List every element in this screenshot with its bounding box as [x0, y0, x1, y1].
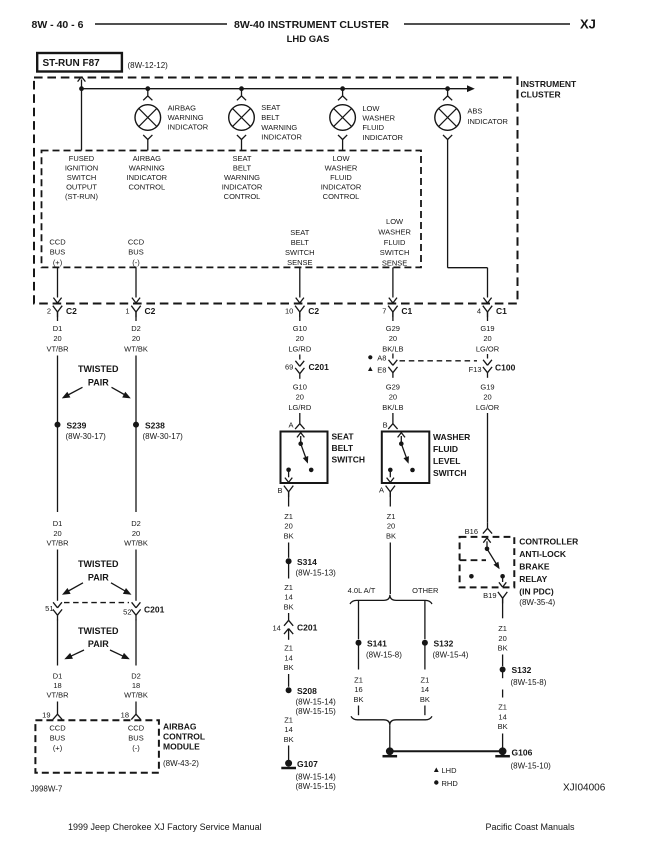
- svg-text:BELT: BELT: [291, 238, 310, 247]
- svg-text:52: 52: [123, 607, 131, 616]
- svg-text:INDICATOR: INDICATOR: [362, 133, 403, 142]
- svg-text:BELT: BELT: [261, 113, 280, 122]
- wire G10 stub above C201: [299, 355, 301, 360]
- wire G19 segment above C100: [487, 354, 489, 359]
- wire stem to ground G106 (left): [389, 725, 391, 748]
- svg-text:1: 1: [125, 307, 129, 316]
- svg-text:Pacific Coast Manuals: Pacific Coast Manuals: [486, 822, 576, 832]
- svg-text:A: A: [288, 420, 293, 429]
- svg-text:ANTI-LOCK: ANTI-LOCK: [519, 549, 567, 559]
- svg-text:18: 18: [132, 681, 140, 690]
- svg-text:20: 20: [483, 334, 491, 343]
- svg-text:(8W-15-14): (8W-15-14): [296, 698, 337, 707]
- wire stub below Z1 14 BK (OTHER branch): [424, 706, 426, 716]
- svg-text:AIRBAG: AIRBAG: [163, 722, 197, 732]
- svg-text:G19: G19: [480, 324, 494, 333]
- svg-text:INDICATOR: INDICATOR: [321, 182, 362, 191]
- svg-text:(-): (-): [132, 743, 140, 752]
- svg-text:LHD GAS: LHD GAS: [287, 34, 330, 45]
- svg-text:WASHER: WASHER: [325, 164, 358, 173]
- lamp SEAT BELT WARNING INDICATOR upper pin fork: [241, 89, 243, 96]
- wire stub below Z1 16 BK: [358, 706, 360, 716]
- svg-text:OTHER: OTHER: [412, 586, 439, 595]
- svg-text:(8W-15-8): (8W-15-8): [366, 651, 402, 660]
- svg-text:69: 69: [285, 363, 293, 372]
- lamp LOW WASHER FLUID INDICATOR bulb symbol: [330, 105, 356, 131]
- svg-text:C201: C201: [144, 604, 165, 614]
- svg-text:WASHER: WASHER: [362, 114, 395, 123]
- washer switch internal exit arrow: [389, 470, 391, 477]
- svg-text:D2: D2: [131, 519, 141, 528]
- header rule left segment: [95, 23, 227, 25]
- wire Z1 segment to S208: [288, 674, 290, 687]
- svg-text:G10: G10: [293, 382, 307, 391]
- washer switch contact (lower left): [388, 468, 393, 473]
- wire stub above Z1 14 BK (right): [502, 690, 504, 698]
- svg-text:PAIR: PAIR: [88, 572, 109, 582]
- lamp LOW WASHER FLUID INDICATOR upper pin fork: [342, 89, 344, 96]
- svg-text:C1: C1: [401, 306, 412, 316]
- svg-text:D2: D2: [131, 324, 141, 333]
- washer switch contact (lower right): [410, 468, 415, 473]
- wire D1 segment to splice S239: [57, 356, 59, 513]
- svg-text:20: 20: [296, 393, 304, 402]
- svg-text:G29: G29: [386, 382, 400, 391]
- wire from fuse F87 into cluster (up arrow): [81, 80, 83, 151]
- svg-text:(ST-RUN): (ST-RUN): [65, 192, 98, 201]
- svg-text:Z1: Z1: [284, 644, 293, 653]
- svg-text:BUS: BUS: [128, 248, 143, 257]
- svg-text:S132: S132: [512, 665, 532, 675]
- lamp ABS INDICATOR upper pin fork: [447, 89, 449, 96]
- svg-text:Z1: Z1: [421, 675, 430, 684]
- svg-text:G29: G29: [386, 324, 400, 333]
- twisted pair arrow left: [67, 387, 83, 395]
- seat belt switch contact (lower left): [286, 468, 291, 473]
- svg-text:WT/BK: WT/BK: [124, 539, 148, 548]
- svg-text:BK: BK: [353, 695, 363, 704]
- svg-text:F13: F13: [469, 365, 482, 374]
- svg-text:A8: A8: [377, 354, 386, 363]
- node: bus junction at x=447.6: [445, 86, 450, 91]
- svg-text:(8W-15-4): (8W-15-4): [433, 651, 469, 660]
- svg-text:CCD: CCD: [49, 237, 66, 246]
- svg-text:BK/LB: BK/LB: [382, 344, 403, 353]
- svg-text:VT/BR: VT/BR: [46, 539, 69, 548]
- svg-text:20: 20: [389, 334, 397, 343]
- svg-text:G19: G19: [480, 382, 494, 391]
- svg-text:ST-RUN F87: ST-RUN F87: [43, 58, 101, 69]
- svg-text:CCD: CCD: [128, 237, 145, 246]
- svg-text:BK: BK: [498, 722, 508, 731]
- splice S208: [286, 687, 292, 693]
- svg-text:TWISTED: TWISTED: [78, 364, 119, 374]
- twisted pair arrow left (lower): [70, 650, 85, 657]
- svg-text:WASHER: WASHER: [378, 228, 411, 237]
- svg-text:8W - 40 - 6: 8W - 40 - 6: [32, 19, 84, 31]
- relay contact (lower left): [469, 574, 474, 579]
- lamp AIRBAG WARNING INDICATOR bulb symbol: [135, 105, 161, 131]
- svg-text:19: 19: [42, 710, 50, 719]
- svg-text:SEAT: SEAT: [290, 228, 309, 237]
- svg-text:16: 16: [354, 685, 362, 694]
- svg-text:(8W-15-10): (8W-15-10): [511, 761, 552, 770]
- svg-text:20: 20: [483, 393, 491, 402]
- svg-text:RELAY: RELAY: [519, 574, 547, 584]
- svg-text:(+): (+): [53, 743, 63, 752]
- wire Z1 from seat belt switch: [288, 492, 290, 507]
- svg-text:RHD: RHD: [442, 779, 459, 788]
- svg-text:(8W-15-15): (8W-15-15): [296, 707, 337, 716]
- svg-text:SWITCH: SWITCH: [380, 248, 410, 257]
- seat belt switch blade: [301, 444, 308, 462]
- svg-text:(8W-43-2): (8W-43-2): [163, 759, 199, 768]
- connector C201 dashed tie line: [64, 602, 129, 604]
- svg-text:SWITCH: SWITCH: [285, 248, 315, 257]
- wire Z1 segment to S314: [288, 543, 290, 558]
- wire Z1 from relay: [502, 598, 504, 618]
- svg-text:J998W-7: J998W-7: [31, 785, 63, 794]
- svg-text:ABS: ABS: [467, 107, 482, 116]
- relay internal entry arrow: [486, 541, 488, 549]
- wire Z1 stub above C201 (center): [288, 613, 290, 620]
- wire G29 to washer switch pin B: [392, 413, 394, 419]
- svg-text:51: 51: [45, 604, 53, 613]
- bus wire end arrow: [467, 85, 475, 92]
- lamp LOW WASHER FLUID INDICATOR lower pin fork: [338, 135, 343, 140]
- wire: washer sense wire to C1 pin 7: [392, 267, 394, 297]
- svg-text:XJI04006: XJI04006: [563, 782, 606, 793]
- svg-text:INDICATOR: INDICATOR: [467, 117, 508, 126]
- svg-text:C2: C2: [145, 306, 156, 316]
- airbag control module dashed box: [35, 720, 158, 772]
- svg-text:LG/RD: LG/RD: [288, 344, 312, 353]
- washer switch internal entry arrow: [400, 436, 402, 444]
- svg-text:SEAT: SEAT: [232, 154, 251, 163]
- svg-text:BK: BK: [420, 695, 430, 704]
- svg-text:Z1: Z1: [498, 624, 507, 633]
- svg-text:CLUSTER: CLUSTER: [521, 89, 561, 99]
- node: bus junction at x=147.8: [145, 86, 150, 91]
- splice S239: [55, 422, 61, 428]
- svg-text:20: 20: [53, 334, 61, 343]
- svg-text:WT/BK: WT/BK: [124, 344, 148, 353]
- svg-text:CONTROLLER: CONTROLLER: [519, 536, 578, 546]
- bus wire across indicators: [82, 88, 468, 90]
- wire Z1 segment to G106: [502, 734, 504, 749]
- svg-text:WARNING: WARNING: [224, 173, 260, 182]
- ground G106 left terminal: [386, 747, 394, 755]
- relay internal dashed divider: [460, 559, 486, 561]
- splice S132 (right): [500, 667, 506, 673]
- svg-text:INDICATOR: INDICATOR: [127, 173, 168, 182]
- washer switch fixed contact (top): [399, 441, 404, 446]
- svg-text:D1: D1: [53, 324, 63, 333]
- wire G10 to seat belt switch pin A: [299, 413, 301, 419]
- svg-text:MODULE: MODULE: [163, 741, 200, 751]
- svg-text:LOW: LOW: [362, 104, 380, 113]
- svg-text:20: 20: [296, 334, 304, 343]
- twisted pair arrow right (lower): [110, 650, 125, 657]
- svg-text:8W-40 INSTRUMENT CLUSTER: 8W-40 INSTRUMENT CLUSTER: [234, 19, 389, 31]
- node: bus junction at ST-RUN feed: [79, 86, 84, 91]
- svg-text:1999 Jeep Cherokee XJ Factory: 1999 Jeep Cherokee XJ Factory Service Ma…: [68, 822, 262, 832]
- svg-text:LHD: LHD: [442, 766, 458, 775]
- wire Z1 segment to S132: [502, 655, 504, 667]
- wire Z1 segment to G107: [288, 746, 290, 761]
- relay fixed contact (top): [485, 547, 490, 552]
- svg-text:WARNING: WARNING: [168, 113, 204, 122]
- relay internal exit arrow: [502, 576, 504, 582]
- svg-text:BELT: BELT: [233, 164, 252, 173]
- svg-text:CCD: CCD: [128, 724, 145, 733]
- svg-text:BUS: BUS: [50, 248, 65, 257]
- svg-text:CONTROL: CONTROL: [163, 732, 205, 742]
- svg-text:TWISTED: TWISTED: [78, 559, 119, 569]
- ground G107: [285, 760, 292, 767]
- svg-text:LG/OR: LG/OR: [476, 403, 500, 412]
- svg-text:(8W-15-8): (8W-15-8): [511, 678, 547, 687]
- connector C2 pin 1: [131, 306, 136, 312]
- svg-text:BELT: BELT: [332, 443, 354, 453]
- lamp ABS INDICATOR bulb symbol: [435, 105, 461, 131]
- svg-text:TWISTED: TWISTED: [78, 626, 119, 636]
- splice S314: [286, 558, 292, 564]
- svg-text:S208: S208: [297, 686, 317, 696]
- split brace (4.0L A/T vs OTHER): [350, 595, 432, 604]
- svg-text:FLUID: FLUID: [433, 444, 458, 454]
- svg-text:D1: D1: [53, 519, 63, 528]
- lamp AIRBAG WARNING INDICATOR lower pin fork: [143, 135, 148, 140]
- svg-text:WASHER: WASHER: [433, 432, 470, 442]
- svg-text:Z1: Z1: [284, 715, 293, 724]
- svg-text:LEVEL: LEVEL: [433, 456, 460, 466]
- svg-text:20: 20: [498, 634, 506, 643]
- svg-text:(8W-15-13): (8W-15-13): [296, 569, 337, 578]
- svg-text:(8W-35-4): (8W-35-4): [519, 598, 555, 607]
- svg-text:LG/RD: LG/RD: [288, 403, 312, 412]
- svg-text:INDICATOR: INDICATOR: [261, 133, 302, 142]
- svg-text:C2: C2: [308, 306, 319, 316]
- ground G106 tie wire: [390, 750, 503, 752]
- svg-text:4.0L A/T: 4.0L A/T: [348, 586, 376, 595]
- wire D1 segment below C201: [57, 620, 59, 666]
- wire G19 long run to relay: [487, 413, 489, 522]
- wire branch OTHER to S132: [424, 601, 426, 639]
- connector C100 dashed tie line: [400, 360, 478, 362]
- node: bus junction at x=241.5: [239, 86, 244, 91]
- svg-text:G106: G106: [512, 747, 533, 757]
- merge brace to ground stem: [351, 716, 432, 725]
- wire D2 segment below C201: [135, 620, 137, 666]
- wire Z1 from washer switch: [389, 492, 391, 507]
- splice S238: [133, 422, 139, 428]
- svg-text:14: 14: [284, 653, 292, 662]
- svg-text:(-): (-): [132, 258, 140, 267]
- svg-text:SEAT: SEAT: [261, 103, 280, 112]
- svg-text:CCD: CCD: [49, 724, 66, 733]
- svg-text:20: 20: [389, 393, 397, 402]
- svg-text:FLUID: FLUID: [384, 238, 406, 247]
- svg-text:20: 20: [132, 334, 140, 343]
- relay blade: [487, 549, 499, 568]
- svg-text:(8W-15-14): (8W-15-14): [296, 772, 337, 781]
- washer switch blade: [401, 444, 408, 462]
- lamp ABS INDICATOR lower pin fork: [443, 135, 448, 140]
- svg-text:14: 14: [284, 593, 292, 602]
- svg-text:B19: B19: [483, 591, 496, 600]
- svg-text:BRAKE: BRAKE: [519, 561, 550, 571]
- svg-text:S141: S141: [367, 638, 387, 648]
- wire: CCD BUS (-) wire to C2 pin 1: [135, 267, 137, 297]
- svg-text:20: 20: [387, 522, 395, 531]
- svg-text:FLUID: FLUID: [362, 123, 384, 132]
- wire below S141: [358, 643, 360, 670]
- connector C1 pin 7: [388, 306, 393, 312]
- wire: seat belt sense wire to C2 pin 10: [299, 267, 301, 297]
- svg-text:FLUID: FLUID: [330, 173, 352, 182]
- svg-text:IGNITION: IGNITION: [65, 164, 98, 173]
- twisted pair arrow right (middle): [111, 583, 126, 592]
- svg-text:E8: E8: [377, 365, 386, 374]
- wire: CCD BUS (+) wire to C2 pin 2: [57, 267, 59, 297]
- svg-text:18: 18: [121, 710, 129, 719]
- svg-text:C100: C100: [495, 362, 516, 372]
- connector C201 pin 14 (in-line, facing up): [284, 620, 289, 626]
- svg-text:OUTPUT: OUTPUT: [66, 182, 97, 191]
- svg-text:(+): (+): [53, 258, 63, 267]
- splice S141: [356, 640, 362, 646]
- connector C100 marker pin E8 (LHD): [368, 367, 373, 371]
- svg-text:D1: D1: [53, 671, 63, 680]
- twisted pair arrow left (middle): [68, 583, 84, 592]
- svg-text:BK: BK: [284, 663, 294, 672]
- svg-text:FUSED: FUSED: [69, 154, 95, 163]
- splice S132 (mid): [422, 640, 428, 646]
- svg-text:S314: S314: [297, 557, 317, 567]
- wire D2 segment to splice S238: [135, 356, 137, 513]
- svg-text:Z1: Z1: [354, 675, 363, 684]
- svg-text:D2: D2: [131, 671, 141, 680]
- svg-text:XJ: XJ: [580, 17, 596, 32]
- svg-text:INDICATOR: INDICATOR: [222, 182, 263, 191]
- wire D2 segment to C201: [135, 550, 137, 601]
- svg-text:C201: C201: [297, 622, 318, 632]
- svg-text:Z1: Z1: [284, 512, 293, 521]
- svg-text:18: 18: [53, 681, 61, 690]
- svg-text:WT/BK: WT/BK: [124, 691, 148, 700]
- lamp SEAT BELT WARNING INDICATOR bulb symbol: [229, 105, 255, 131]
- svg-text:B: B: [383, 420, 388, 429]
- wire: ABS indicator to C1 pin 4 (with bend): [447, 140, 449, 268]
- lamp AIRBAG WARNING INDICATOR upper pin fork: [147, 89, 149, 96]
- connector C1 pin 4: [483, 306, 488, 312]
- svg-text:A: A: [379, 486, 384, 495]
- wire D1 segment to C201: [57, 550, 59, 601]
- svg-text:C2: C2: [66, 306, 77, 316]
- svg-text:BK: BK: [284, 531, 294, 540]
- svg-text:S239: S239: [67, 420, 87, 430]
- svg-text:CONTROL: CONTROL: [128, 182, 165, 191]
- controller anti-lock brake relay dashed box: [460, 537, 515, 588]
- legend RHD marker: [434, 780, 438, 784]
- svg-text:(8W-30-17): (8W-30-17): [143, 432, 184, 441]
- wire Z1 down to 4.0L/OTHER split: [389, 543, 391, 595]
- svg-text:BK: BK: [284, 735, 294, 744]
- svg-text:G107: G107: [297, 759, 318, 769]
- relay contact (lower right): [500, 574, 505, 579]
- seat belt switch box: [281, 432, 328, 484]
- svg-text:Z1: Z1: [284, 583, 293, 592]
- svg-text:WARNING: WARNING: [261, 123, 297, 132]
- svg-text:B16: B16: [465, 527, 478, 536]
- svg-text:S238: S238: [145, 420, 165, 430]
- svg-text:SEAT: SEAT: [332, 431, 355, 441]
- svg-text:BK/LB: BK/LB: [382, 403, 403, 412]
- svg-text:LG/OR: LG/OR: [476, 344, 500, 353]
- connector C100 pin F13 (in-line): [483, 360, 487, 366]
- svg-text:14: 14: [284, 725, 292, 734]
- svg-text:S132: S132: [434, 638, 454, 648]
- svg-text:BK: BK: [284, 602, 294, 611]
- connector C201 pin 52: [132, 602, 136, 608]
- svg-text:B: B: [277, 486, 282, 495]
- twisted pair arrow right: [112, 387, 127, 395]
- svg-text:BK: BK: [498, 644, 508, 653]
- wire D1 to airbag module pin 19: [57, 702, 59, 710]
- svg-text:14: 14: [272, 623, 280, 632]
- svg-text:10: 10: [285, 307, 293, 316]
- svg-text:C1: C1: [496, 306, 507, 316]
- svg-text:(IN PDC): (IN PDC): [519, 586, 554, 596]
- svg-text:(8W-15-15): (8W-15-15): [296, 782, 337, 791]
- svg-text:SWITCH: SWITCH: [332, 454, 366, 464]
- svg-text:VT/BR: VT/BR: [46, 344, 69, 353]
- svg-text:20: 20: [53, 529, 61, 538]
- cluster internal control dashed box: [42, 151, 422, 268]
- svg-text:LOW: LOW: [386, 217, 404, 226]
- svg-text:4: 4: [477, 307, 481, 316]
- wire Z1 below S314: [288, 561, 290, 578]
- svg-text:(8W-12-12): (8W-12-12): [128, 61, 169, 70]
- svg-text:INSTRUMENT: INSTRUMENT: [521, 79, 578, 89]
- svg-text:SENSE: SENSE: [287, 258, 312, 267]
- seat belt switch fixed contact (top): [298, 441, 303, 446]
- wire below S132 (right): [502, 670, 504, 679]
- connector C2 pin 10: [295, 306, 300, 312]
- svg-text:SENSE: SENSE: [382, 258, 407, 267]
- legend LHD marker: [434, 768, 439, 773]
- header rule right segment: [404, 23, 570, 25]
- connector C100 marker pin A8 (RHD): [368, 355, 372, 359]
- svg-text:14: 14: [498, 712, 506, 721]
- svg-text:7: 7: [382, 307, 386, 316]
- seat belt switch internal entry arrow: [300, 436, 302, 444]
- lamp SEAT BELT WARNING INDICATOR lower pin fork: [237, 135, 242, 140]
- svg-text:20: 20: [132, 529, 140, 538]
- svg-text:WARNING: WARNING: [129, 164, 165, 173]
- svg-text:14: 14: [421, 685, 429, 694]
- svg-text:SWITCH: SWITCH: [433, 468, 467, 478]
- connector C201 pin 69 (in-line): [295, 361, 299, 367]
- svg-text:BK: BK: [386, 531, 396, 540]
- svg-text:SWITCH: SWITCH: [67, 173, 97, 182]
- washer fluid level switch box: [382, 432, 430, 484]
- svg-text:G10: G10: [293, 324, 307, 333]
- wire below S132 (mid): [424, 643, 426, 670]
- svg-text:PAIR: PAIR: [88, 377, 109, 387]
- wire D2 to airbag module pin 18: [135, 702, 137, 710]
